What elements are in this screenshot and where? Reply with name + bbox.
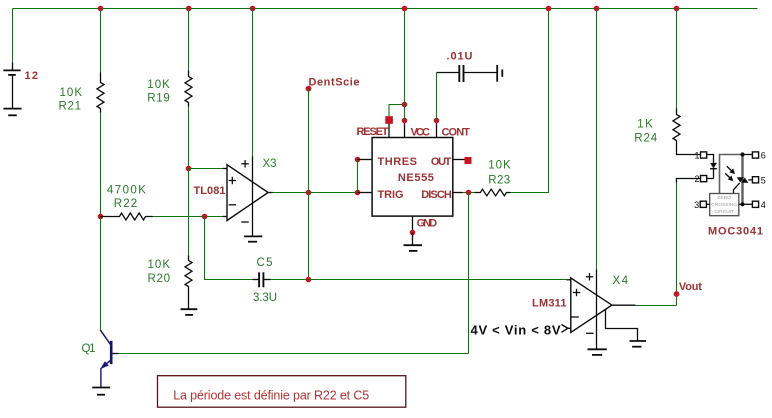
pin DISCH stub	[453, 192, 463, 194]
op-amp U1 TL081 triangle X3	[227, 165, 268, 221]
label 10K R19	[147, 79, 170, 105]
wire R24 to pin 1	[677, 142, 701, 155]
light arrow 1	[727, 166, 735, 174]
zero crossing circuit box	[710, 194, 739, 216]
label .01U	[447, 51, 473, 63]
svg-text:R20: R20	[148, 273, 171, 285]
label CONT	[442, 126, 471, 138]
wire rail to R21	[100, 9, 102, 73]
pin TRIG stub	[358, 192, 373, 194]
wire rail to LM311 V+	[596, 9, 598, 270]
ground (R20)	[181, 309, 198, 315]
pin 4 square	[739, 200, 766, 210]
node THRES junction	[355, 157, 361, 163]
node rail-opamp supply	[250, 6, 256, 12]
wire plus input to op-amp	[189, 168, 223, 170]
svg-text:3: 3	[694, 200, 699, 210]
mark input minus (TL081)	[229, 204, 237, 206]
svg-text:5: 5	[761, 175, 766, 185]
node DentScie top	[306, 86, 312, 92]
mark supply plus (TL081)	[241, 160, 249, 167]
svg-text:R24: R24	[634, 133, 658, 145]
pin stub op-amp plus input	[223, 168, 228, 170]
pin VCC stub	[404, 120, 406, 138]
svg-text:THRES: THRES	[378, 156, 418, 168]
wire battery drop	[12, 9, 14, 63]
wire R19 to plus input node	[188, 107, 190, 169]
node rail-R23	[546, 6, 552, 12]
resistor R23	[475, 189, 511, 196]
wire Q1 base line	[119, 353, 469, 355]
label LM311	[532, 298, 567, 310]
wire CONT up to cap	[436, 73, 438, 121]
label 10K R23	[488, 159, 511, 186]
label TL081	[194, 185, 226, 197]
ground (TL081)	[244, 236, 262, 241]
pin 1 square	[694, 151, 706, 161]
mark supply minus (TL081)	[241, 221, 249, 223]
wire to LM311 plus input	[309, 279, 567, 281]
node VCC pin	[402, 118, 408, 124]
value label 12	[25, 70, 39, 82]
resistor R20	[185, 256, 192, 309]
wire DentScie vertical	[308, 89, 310, 280]
pin stub LM311 plus	[567, 279, 571, 281]
label 10K R21	[59, 87, 83, 113]
battery 12	[3, 63, 20, 109]
connector arrow minus input	[562, 325, 571, 333]
svg-text:R21: R21	[59, 101, 82, 113]
svg-text:R23: R23	[488, 174, 510, 186]
triac	[737, 177, 753, 183]
node rail-R24	[674, 6, 680, 12]
svg-text:LM311: LM311	[532, 298, 567, 310]
label GND	[417, 218, 438, 230]
wire VCC to rail	[404, 9, 406, 121]
wire top supply rail	[13, 8, 758, 10]
capacitor C5	[253, 272, 271, 287]
pin OUT stub	[453, 159, 465, 161]
wire R21 to R22 node	[100, 113, 102, 217]
svg-text:10K: 10K	[147, 79, 170, 91]
pin marker RESET square	[385, 116, 393, 124]
wire LED to pin2	[707, 178, 714, 180]
label RESET	[357, 126, 389, 138]
wire C5 to junction	[271, 279, 309, 281]
svg-text:1: 1	[694, 151, 699, 161]
wire Vout vertical	[676, 183, 678, 306]
ground (NE555)	[404, 233, 423, 251]
label 1K R24	[634, 119, 658, 145]
svg-text:10K: 10K	[60, 87, 83, 99]
resistor R24	[673, 109, 680, 142]
svg-text:1K: 1K	[637, 119, 653, 131]
wire DISCH node down	[468, 193, 470, 354]
node rail-R19	[186, 6, 192, 12]
IC NE555 box	[372, 138, 453, 217]
svg-text:OUT: OUT	[431, 156, 452, 168]
svg-text:X3: X3	[263, 158, 277, 170]
transistor Q1	[100, 330, 111, 387]
note box	[158, 376, 406, 408]
label C5	[257, 257, 273, 269]
node TRIG junction	[355, 190, 361, 196]
ground (battery)	[3, 109, 21, 116]
ground (cap sideways)	[497, 65, 502, 82]
pin stub Q1 base	[113, 353, 119, 355]
capacitor .01U	[437, 65, 497, 82]
wire DISCH to node	[463, 192, 475, 194]
pin stub op-amp minus input	[223, 216, 228, 218]
pin 6 square	[743, 151, 766, 161]
svg-text:R22: R22	[114, 198, 138, 210]
wire RESET jog	[389, 105, 405, 118]
svg-text:GND: GND	[417, 218, 438, 230]
svg-text:CONT: CONT	[442, 126, 471, 138]
label 3.3U	[253, 292, 277, 304]
pin RESET stub	[388, 120, 390, 138]
svg-text:DentScie: DentScie	[309, 77, 360, 89]
svg-text:6: 6	[761, 151, 766, 161]
node CONT pin	[434, 118, 440, 124]
wire R23 to rail	[511, 9, 549, 193]
mark supply plus (LM311)	[586, 273, 594, 280]
node Vout	[674, 291, 680, 297]
svg-text:Vout: Vout	[679, 281, 702, 293]
svg-text:TRIG: TRIG	[378, 189, 404, 201]
node C5-right junction	[306, 277, 312, 283]
node rail-LM311 supply	[594, 6, 600, 12]
mark input plus (TL081)	[229, 177, 237, 184]
svg-text:10K: 10K	[488, 159, 511, 171]
svg-text:ZERO: ZERO	[717, 195, 731, 201]
pin GND stub	[412, 216, 414, 232]
svg-text:10K: 10K	[148, 259, 171, 271]
svg-text:CIRCUIT: CIRCUIT	[714, 209, 734, 215]
comparator U2 LM311 triangle X4	[571, 278, 612, 333]
wire feedback down to C5	[205, 217, 253, 280]
svg-text:4V < Vin < 8V: 4V < Vin < 8V	[471, 322, 561, 337]
pin marker OUT square	[465, 157, 472, 164]
ground (LM311 V-)	[588, 349, 607, 355]
wire node to Q1 collector	[100, 217, 102, 330]
svg-text:La période est définie par R22: La période est définie par R22 et C5	[173, 389, 369, 403]
ground (LM311 pin1)	[630, 341, 647, 347]
svg-text:RESET: RESET	[357, 126, 389, 138]
svg-text:4700K: 4700K	[107, 185, 146, 197]
label 4V < Vin < 8V	[471, 322, 561, 337]
label VCC	[411, 126, 431, 138]
svg-text:MOC3041: MOC3041	[708, 225, 763, 237]
label MOC3041	[708, 225, 763, 237]
svg-text:VCC: VCC	[411, 126, 431, 138]
node minus input junction	[202, 214, 208, 220]
label THRES	[378, 156, 418, 168]
svg-text:TL081: TL081	[194, 185, 226, 197]
mark input plus (LM311)	[573, 289, 581, 296]
svg-text:NE555: NE555	[398, 172, 434, 184]
wire rail to R24	[676, 9, 678, 109]
svg-text:CROSSING: CROSSING	[711, 202, 737, 208]
svg-text:.01U: .01U	[447, 51, 473, 63]
svg-text:12: 12	[25, 70, 39, 82]
wire pin2 to Vout line	[677, 179, 701, 183]
LED diode	[710, 163, 717, 179]
pin 5 square	[752, 175, 765, 185]
wire R22 to minus node	[153, 216, 223, 218]
pin TL081 supply through	[252, 157, 254, 237]
node output-DentScie	[306, 190, 312, 196]
node rail-R21	[98, 6, 104, 12]
LED wiring pin1	[707, 155, 714, 163]
label TRIG	[378, 189, 404, 201]
wire THRES-TRIG tie	[357, 160, 359, 193]
svg-text:R19: R19	[147, 93, 170, 105]
label X4	[613, 275, 629, 287]
pin 3 square	[694, 200, 710, 210]
node rail-VCC	[402, 6, 408, 12]
wire LM311 output	[612, 304, 677, 306]
label OUT	[431, 156, 452, 168]
node plus input junction	[186, 166, 192, 172]
label 4700K R22	[107, 185, 146, 211]
pin THRES stub	[358, 159, 373, 161]
mark supply minus (LM311)	[586, 332, 594, 334]
pin CONT stub	[436, 120, 438, 138]
node pin4 junction	[740, 202, 744, 206]
pin LM311 supply through	[596, 270, 598, 349]
wire LM311 pin1 ground path	[606, 309, 638, 340]
node GND junction	[410, 230, 416, 236]
label X3	[263, 158, 277, 170]
label Q1	[82, 343, 96, 355]
pin 2 square	[694, 174, 706, 184]
resistor R22	[101, 213, 153, 220]
svg-text:C5: C5	[257, 257, 273, 269]
resistor R19	[185, 71, 192, 107]
wire op-amp X3 output	[268, 192, 358, 194]
svg-text:4: 4	[761, 200, 766, 210]
node pin6 junction	[740, 152, 744, 156]
wire rail to TL081 V+	[252, 9, 254, 157]
mark input minus (LM311)	[571, 316, 579, 318]
optocoupler inner box	[720, 153, 743, 205]
wire junction down to R20	[188, 169, 190, 256]
svg-text:DISCH: DISCH	[421, 189, 452, 201]
label NE555	[398, 172, 434, 184]
light arrow 2	[725, 173, 733, 181]
ground (Q1 emitter)	[92, 388, 110, 395]
label Vout	[679, 281, 702, 293]
resistor R21	[97, 73, 104, 113]
label DentScie	[309, 77, 360, 89]
wire rail to R19	[188, 9, 190, 71]
node DISCH junction	[466, 190, 472, 196]
node RESET-VCC junction	[402, 102, 408, 108]
node R21-R22 junction	[98, 214, 104, 220]
svg-text:Q1: Q1	[82, 343, 96, 355]
triac gate	[734, 183, 740, 193]
svg-text:3.3U: 3.3U	[253, 292, 277, 304]
label DISCH	[421, 189, 452, 201]
label 10K R20	[148, 259, 171, 285]
